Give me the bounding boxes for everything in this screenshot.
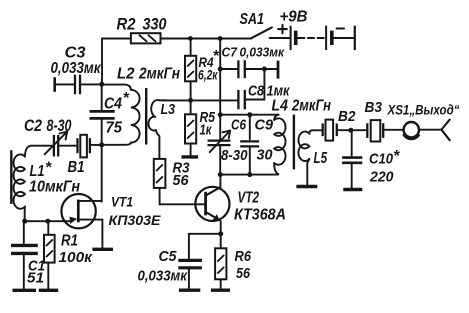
svg-text:XS1„Выход“: XS1„Выход“ — [387, 102, 460, 118]
svg-text:*: * — [213, 48, 220, 65]
svg-text:220: 220 — [369, 169, 394, 186]
svg-text:R6: R6 — [235, 248, 252, 265]
svg-text:30: 30 — [257, 147, 274, 164]
svg-text:C6: C6 — [231, 117, 247, 134]
wire tank bottom — [220, 174, 278, 176]
piezo element B3 — [365, 99, 404, 142]
svg-text:VT1: VT1 — [111, 194, 133, 210]
svg-text:100к: 100к — [59, 249, 94, 266]
svg-text:C4: C4 — [104, 96, 122, 113]
battery GB +9V — [278, 9, 355, 51]
resistor R5 1к — [185, 100, 216, 155]
svg-text:C10: C10 — [369, 151, 394, 168]
svg-text:8-30: 8-30 — [221, 147, 248, 164]
wire drain riser — [101, 145, 103, 202]
inductor L2 2мкГн — [102, 66, 181, 145]
junction R4 bottom / R5 top — [188, 98, 193, 103]
svg-text:L5: L5 — [314, 150, 328, 167]
junction C9 bottom — [247, 172, 252, 177]
switch SA1 — [240, 11, 290, 38]
ground L5 — [296, 185, 317, 188]
core line L2/L3 transformer — [145, 88, 147, 145]
svg-text:*: * — [45, 160, 52, 177]
ground C5 — [179, 289, 200, 292]
junction C9 top — [247, 112, 252, 117]
svg-text:0,033мк: 0,033мк — [138, 269, 188, 285]
svg-text:56: 56 — [236, 265, 251, 282]
junction gate/L1/C1 node — [22, 219, 27, 224]
svg-text:330: 330 — [143, 15, 167, 34]
svg-text:6,2к: 6,2к — [198, 68, 218, 83]
junction VT2 emitter node — [218, 231, 223, 236]
resistor R1 100к — [44, 221, 93, 289]
svg-text:75: 75 — [106, 120, 123, 137]
capacitor C10 220 (with star) — [342, 130, 400, 188]
svg-text:R2: R2 — [117, 15, 136, 34]
svg-text:VT2: VT2 — [238, 190, 260, 207]
inductor L4 2мкГн — [272, 98, 332, 175]
svg-text:C7: C7 — [222, 44, 238, 59]
ground C1 — [13, 289, 37, 292]
core line L4/L5 transformer — [293, 115, 295, 170]
svg-text:C8: C8 — [248, 83, 265, 100]
svg-text:8-30: 8-30 — [47, 117, 73, 135]
wire VT2 base — [160, 203, 205, 205]
capacitor C5 0,033мк — [138, 234, 221, 289]
svg-text:SA1: SA1 — [240, 11, 265, 28]
svg-text:2мкГн: 2мкГн — [138, 66, 180, 83]
junction tank bottom / collector — [218, 172, 223, 177]
capacitor C7 0,033мк — [220, 44, 285, 78]
svg-text:2мкГн: 2мкГн — [291, 98, 331, 115]
svg-text:L4: L4 — [272, 98, 289, 115]
svg-text:КП303Е: КП303Е — [109, 212, 162, 228]
chassis terminal bar — [264, 68, 276, 70]
wire node to B3 — [351, 129, 366, 131]
capacitor C1 51 — [11, 221, 45, 289]
ground R6 — [211, 289, 230, 292]
junction R1 top — [45, 219, 50, 224]
junction B2/C10/B3 node — [348, 128, 353, 133]
svg-text:C2: C2 — [24, 117, 42, 135]
svg-text:+9В: +9В — [280, 9, 308, 26]
junction tank top node — [218, 112, 223, 117]
junction +9V bus top on rail — [218, 36, 223, 41]
junction bus / C7 — [218, 67, 223, 72]
connector XS1 "Выход" — [387, 102, 460, 141]
wire tank top — [220, 114, 278, 116]
inductor L3 — [148, 100, 175, 159]
svg-text:L2: L2 — [117, 66, 135, 83]
capacitor C4 75 (with star) — [90, 84, 130, 145]
transistor VT1 КП303Е — [25, 194, 161, 248]
wire VT2 emitter riser — [220, 221, 222, 234]
resistor R6 56 — [215, 234, 251, 289]
svg-text:В2: В2 — [338, 108, 356, 125]
inductor L1 10мкГн (with star) — [14, 146, 81, 222]
wire VT2 collector riser — [219, 175, 221, 188]
ground R1 — [39, 289, 58, 292]
svg-text:L3: L3 — [161, 102, 176, 118]
junction C7/C8 right node — [262, 67, 267, 72]
piezo element B2 — [323, 108, 356, 141]
wire +9V top rail — [102, 38, 251, 40]
svg-text:0,033мк: 0,033мк — [240, 44, 286, 59]
resistor R3 56 — [154, 159, 190, 204]
svg-text:КТ368А: КТ368А — [234, 207, 286, 224]
ground R5 — [182, 155, 199, 158]
svg-text:C9: C9 — [255, 117, 274, 134]
wire base-bias node (R4/L3/R5/C8) crossing bus — [162, 99, 238, 101]
svg-text:R1: R1 — [61, 233, 78, 250]
svg-text:C5: C5 — [159, 248, 178, 265]
capacitor C6 8-30 variable — [208, 115, 249, 175]
resistor R4 6,2к (with star) — [185, 39, 220, 101]
capacitor C8 1мк — [238, 69, 290, 109]
svg-text:*: * — [123, 90, 130, 107]
junction L2 bottom / B1 / drain node — [99, 142, 104, 147]
svg-text:C3: C3 — [65, 45, 86, 62]
ground VT1 source — [92, 248, 113, 251]
svg-text:51: 51 — [27, 270, 44, 287]
wire L5 to B2 — [314, 129, 322, 131]
svg-text:0,033мк: 0,033мк — [51, 60, 102, 77]
inductor L5 — [298, 130, 327, 185]
resistor R2 330 — [117, 15, 167, 44]
transistor VT2 КТ368А — [195, 187, 286, 224]
svg-text:L1: L1 — [30, 163, 45, 180]
svg-text:В1: В1 — [68, 159, 85, 176]
ground C10 — [343, 188, 362, 191]
junction C3/C4/L2/R2 node — [99, 82, 104, 87]
capacitor C9 30 — [240, 115, 273, 175]
capacitor C3 0,033мк — [51, 45, 102, 95]
junction R4 top on rail — [188, 36, 193, 41]
core line L1 — [10, 150, 12, 204]
svg-text:В3: В3 — [365, 99, 383, 116]
wire +9V bus vertical — [219, 39, 221, 115]
piezo element B1 — [68, 135, 102, 176]
svg-text:10мкГн: 10мкГн — [29, 179, 81, 196]
svg-text:*: * — [393, 148, 400, 165]
svg-text:56: 56 — [173, 172, 190, 189]
svg-text:1к: 1к — [200, 122, 213, 139]
wire left drop from rail to C3/C4 node — [101, 39, 103, 85]
capacitor C2 8-30 variable — [24, 117, 76, 157]
